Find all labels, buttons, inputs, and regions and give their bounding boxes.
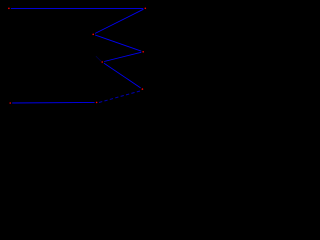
wire bottom edge G-H [10,101,96,104]
wire edge C-D [93,34,143,51]
wire stub above E [96,56,101,61]
node B [143,6,147,10]
node A [7,6,11,10]
wire edge D-E [102,52,143,62]
node F [140,87,144,91]
node D [141,50,145,54]
background [0,0,156,115]
node C [91,32,95,36]
node E [100,60,104,64]
wire edge E-F [102,62,142,89]
node H [95,100,99,104]
wire edge B-C [93,8,145,34]
wire top edge A-B [9,7,145,9]
wire dashed edge H-F [98,90,142,102]
node G [8,101,12,105]
